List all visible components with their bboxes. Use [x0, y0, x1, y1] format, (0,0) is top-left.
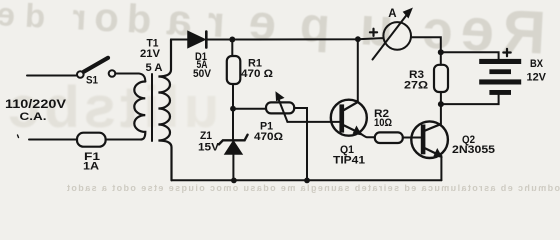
svg-text:15V: 15V	[198, 141, 220, 153]
wire: R3 top lead	[440, 52, 442, 65]
wire: zener anode to bottom rail	[232, 154, 234, 180]
svg-text:C.A.: C.A.	[20, 111, 47, 123]
svg-text:2N3055: 2N3055	[452, 144, 495, 156]
node: battery-/Q2 collector junction dot	[438, 101, 444, 107]
wire: AC input top	[27, 75, 77, 77]
wire: R1 bottom lead to node	[232, 84, 234, 109]
diode D1	[188, 32, 206, 48]
svg-text:TIP41: TIP41	[333, 155, 365, 167]
label + (battery)	[503, 49, 510, 56]
transformer T1 secondary winding	[158, 40, 171, 181]
node: D1/R1 junction dot	[229, 37, 235, 43]
wire: P1 right terminal down to bottom rail	[294, 108, 307, 180]
resistor R2	[375, 132, 403, 143]
wire: fuse to transformer primary	[106, 139, 141, 141]
svg-text:12V: 12V	[527, 72, 547, 84]
watermark: bottom small mirrored text	[0, 183, 560, 193]
watermark: middle-left faint letters	[0, 74, 560, 141]
wire: secondary to diode D1	[171, 39, 188, 41]
resistor R1	[227, 56, 241, 84]
wire: node to P1 left	[233, 108, 266, 110]
svg-text:50V: 50V	[193, 68, 212, 80]
svg-text:S1: S1	[86, 74, 98, 86]
wire: bottom rail	[172, 179, 442, 181]
node: Q1 collector junction dot	[355, 36, 361, 42]
fuse F1	[77, 133, 106, 147]
svg-text:110/220V: 110/220V	[5, 99, 66, 111]
transformer T1 core	[151, 74, 153, 141]
node: P1 terminal on bottom rail dot	[304, 178, 310, 184]
wire: switch to transformer primary	[115, 74, 145, 82]
svg-text:470 Ω: 470 Ω	[241, 68, 273, 80]
wire: P1 wiper to Q1 base	[287, 121, 339, 123]
wire: Q1 collector lead	[357, 39, 359, 101]
wire: D1 to node	[207, 39, 233, 41]
svg-text:5 A: 5 A	[146, 62, 163, 74]
wire: battery - to right vertical	[441, 95, 499, 104]
wire: Q2 emitter to bottom rail	[440, 156, 442, 180]
svg-text:27Ω: 27Ω	[404, 80, 428, 92]
resistor R3	[434, 65, 448, 92]
svg-text:10Ω: 10Ω	[374, 117, 392, 129]
svg-text:A: A	[388, 8, 396, 20]
wire: Q1 emitter to R2	[360, 133, 374, 137]
switch S1	[77, 58, 115, 78]
wire: R1 top lead	[231, 40, 233, 57]
wire: R2 to Q2 base	[403, 137, 421, 139]
wire: ammeter to right vertical	[411, 37, 441, 52]
node: battery+/R3 junction dot	[438, 49, 444, 55]
wire: node to battery +	[441, 52, 499, 59]
transistor Q1	[331, 100, 367, 136]
wire: R3 bottom lead	[440, 92, 442, 104]
speck near input wire	[18, 135, 19, 138]
battery BX	[479, 59, 521, 95]
svg-text:BX: BX	[530, 58, 544, 70]
wire: Q2 collector lead	[440, 104, 442, 124]
node: zener on bottom rail dot	[231, 178, 237, 184]
ammeter A	[373, 8, 413, 59]
transistor Q2	[411, 121, 448, 158]
transformer T1 primary winding	[134, 82, 145, 140]
node: R1/P1/zener junction dot	[230, 106, 236, 112]
label + (ammeter)	[370, 29, 377, 36]
potentiometer P1	[266, 92, 294, 121]
wire: AC input bottom	[29, 139, 77, 141]
wire: top rail node to ammeter	[232, 38, 383, 39]
zener Z1	[219, 135, 248, 154]
svg-text:1A: 1A	[83, 161, 99, 173]
watermark: top mirrored headline	[0, 0, 560, 69]
wire: zener top lead	[232, 109, 234, 140]
svg-text:21V: 21V	[140, 48, 161, 60]
svg-text:Z1: Z1	[200, 130, 212, 142]
svg-text:470Ω: 470Ω	[254, 131, 283, 143]
